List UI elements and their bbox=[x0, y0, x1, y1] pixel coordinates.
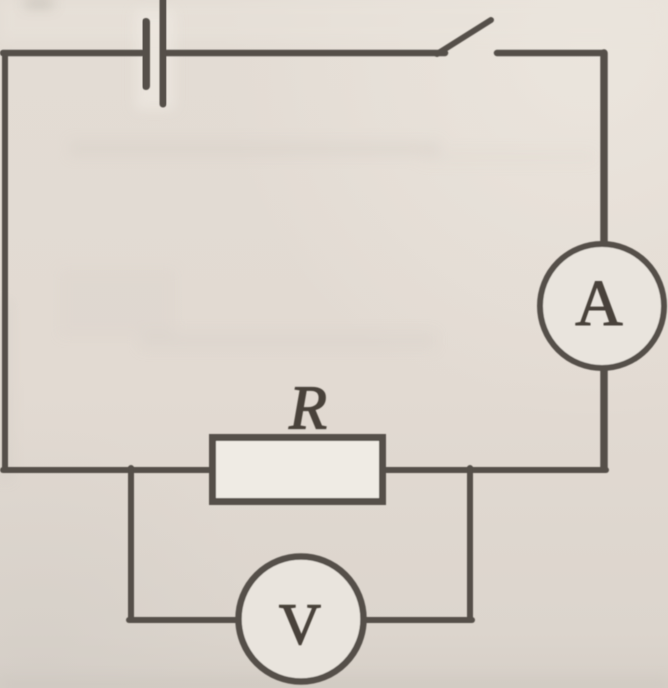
wire: right side vertical upper (top-right corner to ammeter A1) bbox=[600, 53, 608, 244]
wire: voltmeter branch left vertical (junction at bottom wire down) bbox=[128, 468, 134, 620]
svg-text:V: V bbox=[279, 592, 321, 657]
svg-text:A: A bbox=[575, 267, 623, 340]
wire: left side vertical (top-left corner to bottom-left corner) bbox=[2, 53, 8, 470]
wire: switch S1 right contact to top-right corner bbox=[497, 50, 602, 57]
wire: voltmeter branch left horizontal to V1 left terminal bbox=[129, 617, 238, 623]
svg-text:R: R bbox=[288, 375, 327, 443]
battery cell B1 bbox=[146, 0, 163, 104]
battery B1 short thick plate (negative) bbox=[142, 22, 150, 86]
wire: voltmeter branch right vertical (junction at bottom wire down) bbox=[467, 468, 473, 620]
wire: battery B1 positive terminal to switch S1 bbox=[165, 50, 445, 57]
resistor R body bbox=[213, 438, 383, 502]
wire: battery B1 negative terminal to top-left corner bbox=[3, 50, 142, 57]
wire: voltmeter branch right horizontal to V1 right terminal bbox=[364, 617, 472, 623]
battery B1 long plate (positive) bbox=[160, 0, 167, 104]
voltmeter V1 body circle bbox=[239, 557, 364, 682]
wire: bottom-left corner to resistor R left lead bbox=[3, 467, 212, 473]
ammeter A1 body circle bbox=[540, 244, 664, 368]
wire: right side vertical lower (ammeter A1 to bottom-right corner) bbox=[600, 368, 608, 468]
wire: bottom-right corner to resistor R right lead bbox=[383, 467, 606, 473]
switch S1 blade (open) bbox=[437, 20, 491, 54]
